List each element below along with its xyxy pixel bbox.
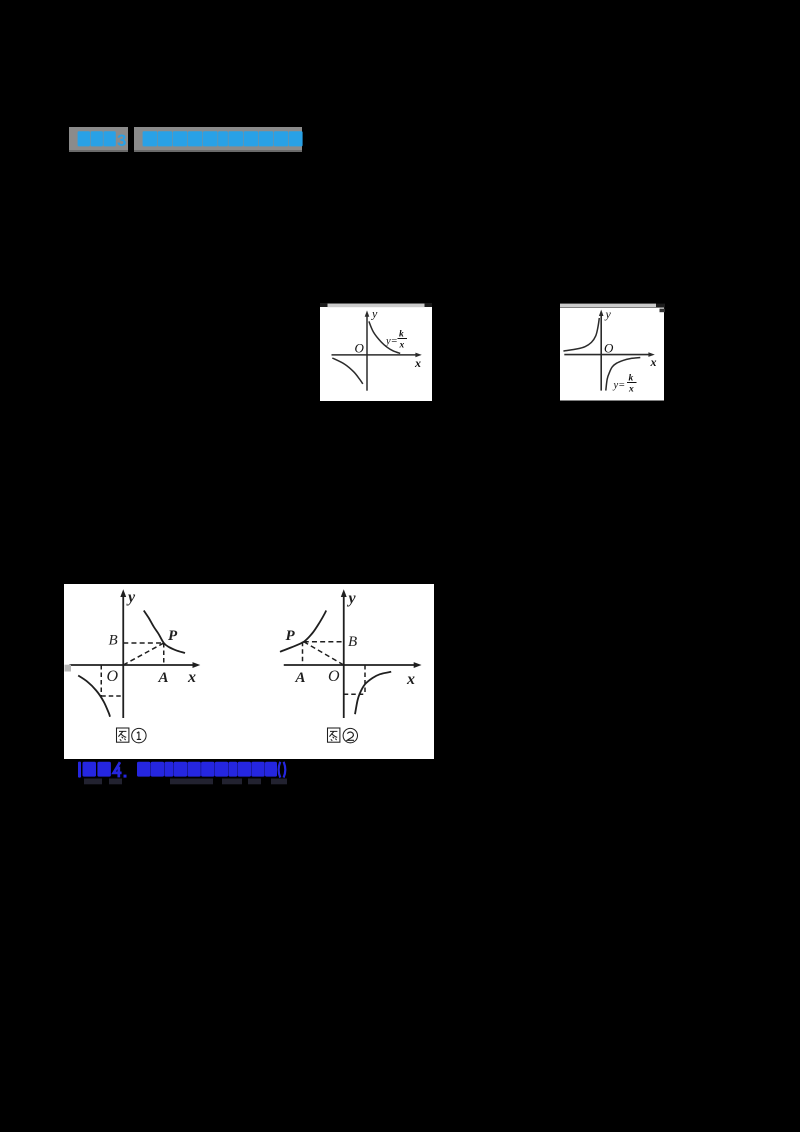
caption 图1	[117, 728, 129, 742]
right dashed P to O	[304, 641, 344, 664]
svg-text:x: x	[398, 341, 404, 351]
svg-text:B: B	[109, 632, 118, 648]
svg-text:O: O	[328, 668, 340, 685]
svg-text:y=: y=	[612, 380, 625, 391]
left dashed rect quadrant III	[100, 665, 102, 696]
header label box 1 (gray tag, blue CJK text)	[69, 127, 128, 152]
right dashed P to A	[302, 641, 304, 664]
svg-text:A: A	[158, 670, 169, 686]
svg-text:3: 3	[117, 131, 126, 150]
small figure 1: hyperbola y=k/x with k>0	[320, 303, 432, 401]
left curve quadrant I through P	[144, 610, 185, 653]
right curve quadrant II through P	[280, 610, 326, 651]
svg-text:y: y	[604, 307, 611, 321]
svg-text:P: P	[286, 628, 296, 644]
blue problem heading text	[70, 757, 300, 787]
left dashed B to P	[123, 642, 164, 644]
small figure 2: hyperbola y=k/x with k<0	[560, 303, 665, 401]
header label box 2 (gray tag, blue CJK title)	[134, 127, 302, 152]
svg-text:x: x	[187, 669, 196, 686]
large figure with diagrams 图1(left) and 图2(right)	[64, 584, 434, 759]
svg-text:y: y	[347, 590, 357, 607]
left diagram x-axis	[70, 664, 196, 666]
left dashed P to A	[163, 643, 165, 665]
left dashed O to P	[123, 643, 164, 665]
right diagram x-axis	[284, 664, 417, 666]
svg-text:y: y	[371, 307, 378, 321]
svg-text:O: O	[604, 341, 614, 356]
right dashed P to B	[304, 640, 344, 642]
svg-text:x: x	[649, 355, 656, 369]
right curve quadrant IV	[355, 671, 391, 713]
svg-text:x: x	[414, 356, 421, 370]
svg-text:O: O	[354, 341, 364, 356]
left diagram y-axis	[122, 594, 124, 718]
left curve quadrant III	[78, 675, 110, 716]
svg-text:B: B	[348, 634, 357, 650]
caption 图2	[328, 728, 340, 742]
svg-text:y: y	[126, 589, 136, 606]
svg-text:A: A	[295, 670, 306, 686]
svg-text:x: x	[406, 671, 415, 688]
svg-text:x: x	[628, 385, 634, 395]
right diagram y-axis	[343, 594, 345, 718]
svg-text:O: O	[107, 668, 119, 685]
right dashed rect quadrant IV	[364, 665, 366, 694]
gray tab at left edge	[65, 664, 72, 671]
svg-text:P: P	[168, 628, 178, 644]
svg-text:y=: y=	[385, 336, 398, 347]
